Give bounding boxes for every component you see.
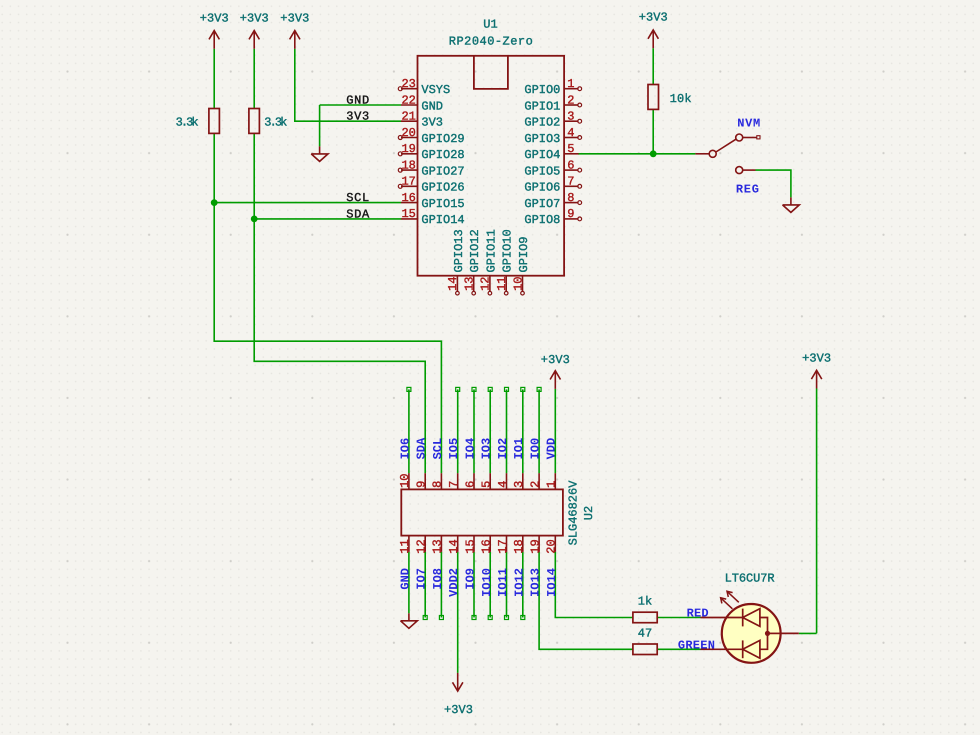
svg-text:NVM: NVM xyxy=(737,117,760,131)
svg-text:16: 16 xyxy=(480,539,494,553)
svg-text:+3V3: +3V3 xyxy=(240,11,269,25)
svg-text:11: 11 xyxy=(398,539,412,553)
svg-text:4: 4 xyxy=(567,126,574,140)
svg-text:LT6CU7R: LT6CU7R xyxy=(725,572,775,586)
svg-text:12: 12 xyxy=(415,539,429,553)
svg-text:GPIO3: GPIO3 xyxy=(524,132,560,146)
svg-text:13: 13 xyxy=(431,539,445,553)
svg-text:+3V3: +3V3 xyxy=(280,11,309,25)
svg-text:3.3k: 3.3k xyxy=(176,115,199,129)
svg-text:IO8: IO8 xyxy=(431,568,445,590)
svg-text:+3V3: +3V3 xyxy=(541,353,570,367)
svg-text:3.3k: 3.3k xyxy=(264,115,287,129)
svg-text:21: 21 xyxy=(401,110,415,124)
svg-text:19: 19 xyxy=(401,142,415,156)
svg-text:GPIO10: GPIO10 xyxy=(501,229,515,272)
svg-text:9: 9 xyxy=(567,207,574,221)
svg-text:SDA: SDA xyxy=(346,207,370,221)
svg-text:IO3: IO3 xyxy=(480,438,494,460)
svg-text:U1: U1 xyxy=(483,17,497,31)
svg-text:1k: 1k xyxy=(638,595,652,609)
svg-text:GREEN: GREEN xyxy=(678,638,715,652)
svg-text:IO13: IO13 xyxy=(529,568,543,597)
svg-text:GPIO11: GPIO11 xyxy=(484,229,498,272)
svg-text:10k: 10k xyxy=(670,92,692,106)
svg-text:GPIO8: GPIO8 xyxy=(524,213,560,227)
svg-text:GPIO12: GPIO12 xyxy=(468,229,482,272)
svg-text:VSYS: VSYS xyxy=(421,83,450,97)
svg-text:15: 15 xyxy=(401,207,415,221)
svg-text:GPIO29: GPIO29 xyxy=(421,132,464,146)
svg-text:3V3: 3V3 xyxy=(346,110,369,124)
svg-text:+3V3: +3V3 xyxy=(444,703,473,717)
svg-text:5: 5 xyxy=(480,481,494,488)
svg-text:IO14: IO14 xyxy=(545,568,559,597)
svg-text:GPIO6: GPIO6 xyxy=(524,181,560,195)
svg-text:14: 14 xyxy=(447,539,461,553)
svg-text:22: 22 xyxy=(401,93,415,107)
svg-text:IO4: IO4 xyxy=(463,438,477,460)
svg-text:RED: RED xyxy=(687,606,709,620)
svg-text:GPIO27: GPIO27 xyxy=(421,164,464,178)
svg-text:IO5: IO5 xyxy=(447,438,461,460)
svg-text:SDA: SDA xyxy=(415,437,429,459)
svg-text:GND: GND xyxy=(346,93,369,107)
svg-text:SLG46826V: SLG46826V xyxy=(567,480,581,546)
svg-text:20: 20 xyxy=(545,539,559,553)
svg-text:10: 10 xyxy=(511,276,525,290)
svg-text:2: 2 xyxy=(528,481,542,488)
svg-text:12: 12 xyxy=(479,276,493,290)
svg-text:17: 17 xyxy=(401,175,415,189)
svg-text:GPIO4: GPIO4 xyxy=(524,148,560,162)
svg-text:IO9: IO9 xyxy=(464,568,478,590)
svg-text:SCL: SCL xyxy=(346,191,369,205)
svg-text:GPIO5: GPIO5 xyxy=(524,164,560,178)
svg-text:GPIO14: GPIO14 xyxy=(421,213,464,227)
svg-text:8: 8 xyxy=(431,481,445,488)
svg-text:3V3: 3V3 xyxy=(421,116,443,130)
svg-text:IO0: IO0 xyxy=(529,438,543,460)
svg-text:IO12: IO12 xyxy=(512,568,526,597)
svg-text:IO10: IO10 xyxy=(480,568,494,597)
svg-text:VDD: VDD xyxy=(545,438,559,460)
svg-text:+3V3: +3V3 xyxy=(200,11,229,25)
svg-text:2: 2 xyxy=(567,93,574,107)
svg-text:7: 7 xyxy=(447,481,461,488)
svg-text:1: 1 xyxy=(545,481,559,488)
svg-text:GPIO0: GPIO0 xyxy=(524,83,560,97)
svg-text:8: 8 xyxy=(567,191,574,205)
svg-text:GPIO7: GPIO7 xyxy=(524,197,560,211)
svg-text:+3V3: +3V3 xyxy=(802,351,831,365)
svg-text:20: 20 xyxy=(401,126,415,140)
svg-text:18: 18 xyxy=(401,158,415,172)
svg-text:RP2040-Zero: RP2040-Zero xyxy=(449,35,533,49)
svg-text:9: 9 xyxy=(415,481,429,488)
svg-text:1: 1 xyxy=(567,77,574,91)
svg-text:IO1: IO1 xyxy=(512,438,526,460)
svg-text:SCL: SCL xyxy=(431,438,445,460)
svg-text:GND: GND xyxy=(421,99,443,113)
svg-text:GPIO9: GPIO9 xyxy=(517,236,531,272)
svg-text:23: 23 xyxy=(401,77,415,91)
svg-text:GPIO1: GPIO1 xyxy=(524,99,560,113)
svg-text:IO2: IO2 xyxy=(496,438,510,460)
svg-text:+3V3: +3V3 xyxy=(639,11,668,25)
svg-text:5: 5 xyxy=(567,142,574,156)
svg-text:GPIO2: GPIO2 xyxy=(524,116,560,130)
svg-text:GPIO26: GPIO26 xyxy=(421,181,464,195)
svg-text:GPIO13: GPIO13 xyxy=(452,229,466,272)
svg-text:6: 6 xyxy=(463,481,477,488)
svg-text:IO11: IO11 xyxy=(496,568,510,597)
svg-text:IO7: IO7 xyxy=(415,568,429,590)
svg-text:16: 16 xyxy=(401,191,415,205)
svg-text:47: 47 xyxy=(638,626,652,640)
svg-text:GPIO28: GPIO28 xyxy=(421,148,464,162)
svg-text:VDD2: VDD2 xyxy=(447,568,461,597)
svg-text:13: 13 xyxy=(463,276,477,290)
svg-text:7: 7 xyxy=(567,175,574,189)
svg-text:U2: U2 xyxy=(582,506,596,520)
svg-text:GPIO15: GPIO15 xyxy=(421,197,464,211)
svg-text:19: 19 xyxy=(528,539,542,553)
svg-text:4: 4 xyxy=(496,481,510,488)
svg-text:15: 15 xyxy=(463,539,477,553)
svg-text:GND: GND xyxy=(398,568,412,590)
svg-text:REG: REG xyxy=(736,182,759,196)
svg-text:3: 3 xyxy=(567,110,574,124)
svg-text:18: 18 xyxy=(512,539,526,553)
svg-text:6: 6 xyxy=(567,158,574,172)
svg-text:IO6: IO6 xyxy=(398,438,412,460)
svg-text:10: 10 xyxy=(398,473,412,487)
svg-text:3: 3 xyxy=(512,481,526,488)
svg-text:11: 11 xyxy=(495,276,509,290)
svg-text:14: 14 xyxy=(446,276,460,290)
svg-text:17: 17 xyxy=(496,539,510,553)
